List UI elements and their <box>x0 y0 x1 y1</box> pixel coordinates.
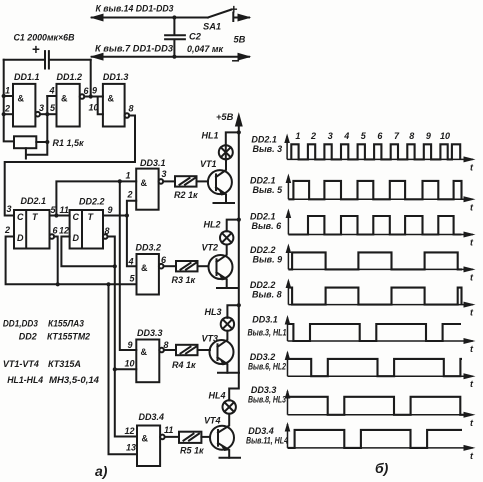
svg-text:1: 1 <box>295 131 300 141</box>
ground VT3 <box>218 372 239 374</box>
wire arrowhead right top <box>238 14 250 21</box>
svg-text:&: & <box>141 347 148 357</box>
svg-text:11: 11 <box>164 425 173 435</box>
svg-text:C: C <box>17 212 24 222</box>
wire R3 to VT2 <box>198 265 209 267</box>
bubble DD3.3 out <box>159 348 164 353</box>
svg-text:4: 4 <box>49 86 55 96</box>
pin 5 wire <box>47 113 56 115</box>
node Q2- junction <box>113 264 117 268</box>
axes w5 <box>288 281 473 305</box>
svg-text:DD2.1: DD2.1 <box>251 135 277 145</box>
svg-text:DD2.2: DD2.2 <box>79 197 105 207</box>
bubble DD3.1 out <box>159 179 164 184</box>
svg-text:Выв. 5: Выв. 5 <box>253 185 284 195</box>
svg-text:DD2: DD2 <box>19 332 38 342</box>
svg-text:DD1.1: DD1.1 <box>14 72 40 82</box>
node Q2 junction <box>125 213 129 217</box>
svg-text:−: − <box>232 53 240 69</box>
svg-text:HL1-HL4: HL1-HL4 <box>7 375 44 385</box>
wire Q1- down to DD3.4 pin13 <box>109 284 138 454</box>
svg-text:DD3.4: DD3.4 <box>139 412 165 422</box>
bubble DD3.4 out <box>160 435 165 440</box>
wire R2 to VT1 <box>197 180 209 182</box>
svg-text:DD2.2: DD2.2 <box>250 280 276 290</box>
wire Q2 pin9 <box>103 215 127 217</box>
gate DD3.3 <box>136 340 159 383</box>
wire +supply top line to pin14 <box>92 17 208 19</box>
svg-text:&: & <box>18 94 25 104</box>
svg-text:SA1: SA1 <box>203 22 221 32</box>
svg-text:К выв.14 DD1-DD3: К выв.14 DD1-DD3 <box>96 4 175 14</box>
svg-text:К155ЛА3: К155ЛА3 <box>48 319 85 329</box>
svg-text:&: & <box>108 94 115 104</box>
wire arrowhead right bottom <box>238 53 250 60</box>
resistor R4 <box>176 345 198 355</box>
resistor R2 <box>175 176 197 186</box>
svg-text:HL1: HL1 <box>202 131 219 141</box>
node pin2 <box>2 112 6 116</box>
wire C1 right down to DD1.2 out <box>90 60 92 97</box>
ground VT2 <box>217 287 238 289</box>
svg-text:DD2.2: DD2.2 <box>250 245 276 255</box>
svg-text:C: C <box>73 212 80 222</box>
svg-text:3: 3 <box>7 204 12 214</box>
wire out6 to R3 <box>164 265 177 267</box>
axes w3 <box>288 211 473 235</box>
svg-text:КТ315А: КТ315А <box>48 359 81 369</box>
pin 4 wire <box>47 95 56 97</box>
svg-text:DD1,DD3: DD1,DD3 <box>3 319 39 329</box>
axes w6 <box>288 318 474 342</box>
bubble DD1.3 out <box>125 113 130 118</box>
wire Q1- down to bus <box>54 237 58 285</box>
svg-text:R5 1к: R5 1к <box>180 446 204 456</box>
wire out8 to R4 <box>164 349 176 351</box>
svg-text:DD1.3: DD1.3 <box>103 72 129 82</box>
svg-text:4: 4 <box>128 257 134 267</box>
svg-text:б): б) <box>375 460 389 476</box>
waveform w2 Q1 <box>288 181 461 199</box>
node C2 bottom <box>172 55 176 59</box>
wire out3 to junction <box>40 113 47 115</box>
wire pin12 loop <box>61 237 114 267</box>
node pin1 <box>2 94 6 98</box>
svg-text:R2 1к: R2 1к <box>174 190 198 200</box>
svg-text:1: 1 <box>126 171 131 181</box>
svg-text:DD3.4: DD3.4 <box>248 426 274 436</box>
svg-text:+: + <box>32 42 40 57</box>
svg-text:HL3: HL3 <box>205 307 222 317</box>
svg-text:13: 13 <box>126 443 136 453</box>
svg-text:&: & <box>141 263 148 273</box>
wire R1 tap <box>26 142 47 159</box>
resistor R3 <box>176 261 198 271</box>
bubble DD2.1 Q- <box>50 234 55 239</box>
svg-text:VT2: VT2 <box>202 243 219 253</box>
node Q1 junction <box>54 213 58 217</box>
waveform w6 HL1 <box>288 324 462 341</box>
svg-text:DD3.3: DD3.3 <box>137 328 163 338</box>
svg-text:Выв.6, HL2: Выв.6, HL2 <box>248 362 286 372</box>
capacitor C2 <box>165 18 185 57</box>
wire Q2- right down <box>108 237 115 267</box>
svg-text:&: & <box>142 434 149 444</box>
wire out8 right and down to clock bus <box>129 116 135 163</box>
wire out3 to R2 <box>163 180 175 182</box>
wire Q1 pin5 to junction <box>50 215 57 217</box>
waveform w8 HL3 <box>288 397 465 415</box>
svg-text:8: 8 <box>409 131 414 141</box>
svg-text:HL2: HL2 <box>204 220 221 230</box>
svg-text:9: 9 <box>108 205 113 215</box>
svg-text:DD3.2: DD3.2 <box>250 352 276 362</box>
svg-text:R3 1к: R3 1к <box>172 275 196 285</box>
wire C1 left down to DD1.1 inputs <box>4 60 14 142</box>
bubble DD1.2 out <box>80 94 85 99</box>
timing labels <box>246 131 474 461</box>
wire R1 right <box>36 141 47 143</box>
node out3 <box>45 112 49 116</box>
svg-text:DD2.1: DD2.1 <box>250 176 276 186</box>
waveform w1 clock <box>291 144 460 159</box>
svg-text:2: 2 <box>310 131 316 141</box>
wire arrowhead left top <box>92 14 103 21</box>
flipflop DD2.1 <box>14 210 50 249</box>
wire R4 to VT3 <box>198 349 210 351</box>
wire Q2 up to DD3.1 pin2 <box>127 201 136 216</box>
node C1/pin9 <box>89 94 93 98</box>
svg-text:DD3.3: DD3.3 <box>251 385 277 395</box>
svg-text:C1 2000мк×6В: C1 2000мк×6В <box>14 33 75 43</box>
wire Q1 up and right to DD3.1 <box>56 181 136 215</box>
wire tie pins 9,10 <box>98 97 103 115</box>
wire Q2- down to DD3.3 pin10 and DD3.4 pin12 <box>115 266 137 436</box>
arrowhead +5V <box>236 114 243 126</box>
svg-text:VT3: VT3 <box>202 334 219 344</box>
node bus pin6 <box>56 282 60 286</box>
svg-text:9: 9 <box>426 131 431 141</box>
svg-text:3: 3 <box>162 169 167 179</box>
svg-text:DD2.1: DD2.1 <box>21 196 47 206</box>
svg-text:VT4: VT4 <box>204 416 221 426</box>
svg-text:8: 8 <box>129 104 134 114</box>
svg-text:D: D <box>17 233 24 243</box>
svg-text:+: + <box>230 2 238 17</box>
gate DD1.3 <box>103 84 125 127</box>
transistor VT1 <box>208 170 232 194</box>
waveform w5 Q2- <box>288 288 461 305</box>
svg-text:VT1-VT4: VT1-VT4 <box>3 359 40 369</box>
node rail HL3 <box>237 303 241 307</box>
svg-text:Выв.11, HL4: Выв.11, HL4 <box>246 436 288 446</box>
svg-text:10: 10 <box>440 131 450 141</box>
svg-text:Выв. 6: Выв. 6 <box>252 221 283 231</box>
axes w8 <box>288 391 474 415</box>
node bus drop <box>106 282 110 286</box>
lamp HL4 <box>228 399 230 402</box>
axes w1 <box>287 136 473 159</box>
svg-text:DD2.1: DD2.1 <box>250 212 276 222</box>
svg-text:&: & <box>61 94 68 104</box>
transistor VT3 <box>210 340 234 364</box>
svg-text:а): а) <box>95 463 108 479</box>
svg-text:4: 4 <box>343 131 349 141</box>
transistor VT2 <box>209 255 233 279</box>
ground VT4 <box>220 457 241 459</box>
transistor VT4 <box>210 426 234 450</box>
svg-text:8: 8 <box>164 340 169 350</box>
wire Q2 down to DD3.2 pin4 <box>127 216 137 267</box>
lamp HL1 <box>226 132 239 145</box>
svg-text:2: 2 <box>4 225 10 235</box>
bubble DD1.1 out <box>35 112 40 117</box>
switch SA1 <box>208 10 249 22</box>
pin 2 wire loop to bus <box>6 237 58 285</box>
wire Q1 down to DD3.3 pin9 <box>120 181 137 350</box>
svg-text:КТ155ТМ2: КТ155ТМ2 <box>47 332 91 342</box>
gate DD3.4 <box>137 426 160 467</box>
wire out11 to R5 <box>165 436 179 438</box>
svg-text:&: & <box>141 178 148 188</box>
lamp HL2 <box>227 220 239 232</box>
svg-text:DD1.2: DD1.2 <box>57 72 83 82</box>
wire arrowhead left bottom <box>92 53 103 60</box>
gate DD3.1 <box>136 169 158 210</box>
node R1 right <box>45 140 49 144</box>
svg-text:DD3.1: DD3.1 <box>140 158 166 168</box>
svg-text:R4 1к: R4 1к <box>172 360 196 370</box>
waveform w7 HL2 <box>288 359 463 376</box>
bubble DD2.2 Q- <box>103 234 108 239</box>
capacitor C1 <box>4 51 91 68</box>
node Q1 drop <box>118 179 122 183</box>
flipflop DD2.2 <box>70 210 103 249</box>
wire R5 to VT4 <box>201 436 210 438</box>
svg-text:HL4: HL4 <box>209 391 226 401</box>
axes w4 <box>288 246 473 269</box>
gate DD1.2 <box>57 84 80 127</box>
svg-text:DD3.1: DD3.1 <box>252 315 278 325</box>
wire out6 to DD1.3 <box>84 96 103 98</box>
svg-text:+5В: +5В <box>216 112 234 122</box>
svg-text:Выв. 8: Выв. 8 <box>252 290 282 300</box>
resistor R5 <box>179 432 201 443</box>
svg-text:5В: 5В <box>234 35 246 45</box>
svg-text:VT1: VT1 <box>200 159 217 169</box>
waveform w3 Q1- <box>288 216 461 235</box>
svg-text:10: 10 <box>89 103 99 113</box>
svg-text:9: 9 <box>128 340 133 350</box>
wire bottom supply line to pin7 <box>92 56 249 58</box>
wire clock bus DD1.3 to DD2.1 C <box>5 162 135 216</box>
svg-text:1: 1 <box>5 86 10 96</box>
axes w2 <box>288 176 473 199</box>
rail +5V <box>229 118 239 400</box>
resistor R1 <box>14 136 36 148</box>
svg-text:Выв.8, HL3: Выв.8, HL3 <box>248 395 286 405</box>
svg-text:D: D <box>73 233 80 243</box>
waveform w4 Q2 <box>288 252 462 269</box>
wire pin10 <box>115 368 137 370</box>
svg-text:Выв. 3: Выв. 3 <box>253 144 283 154</box>
svg-text:К выв.7 DD1-DD3: К выв.7 DD1-DD3 <box>95 44 174 54</box>
node rail HL2 <box>237 218 241 222</box>
wire tie pins 4,5 and down to R1 <box>46 96 48 142</box>
gate DD3.2 <box>137 254 159 295</box>
svg-text:2: 2 <box>127 190 133 200</box>
svg-text:2: 2 <box>4 104 10 114</box>
node rail HL1 <box>237 130 241 134</box>
svg-text:C2: C2 <box>189 32 202 42</box>
ground VT1 <box>214 202 235 204</box>
node C2 top <box>172 15 176 19</box>
svg-text:МН3,5-0,14: МН3,5-0,14 <box>49 375 100 385</box>
svg-text:3: 3 <box>39 103 44 113</box>
svg-text:R1 1,5к: R1 1,5к <box>53 138 85 148</box>
svg-text:8: 8 <box>105 226 110 236</box>
svg-text:Выв. 9: Выв. 9 <box>253 255 283 265</box>
pin 1 wire <box>4 95 13 97</box>
svg-text:10: 10 <box>125 359 135 369</box>
axes w7 <box>288 353 474 377</box>
svg-text:Выв.3, HL1: Выв.3, HL1 <box>248 328 287 338</box>
wire bus to DD3.2 pin5 <box>58 283 137 285</box>
lamp HL3 <box>227 305 238 318</box>
bubble DD3.2 out <box>159 264 164 269</box>
gate DD1.1 <box>13 84 35 127</box>
node Q2- pin10 <box>113 367 117 371</box>
pin 2 wire <box>4 113 13 115</box>
svg-text:3: 3 <box>328 131 333 141</box>
axes w9 <box>288 424 474 448</box>
svg-text:12: 12 <box>125 426 135 436</box>
svg-text:0,047 мк: 0,047 мк <box>187 44 224 54</box>
svg-text:11: 11 <box>60 205 69 215</box>
wire pin11 <box>56 215 69 217</box>
svg-text:DD3.2: DD3.2 <box>136 243 162 253</box>
waveform w9 HL4 <box>288 430 463 448</box>
svg-text:12: 12 <box>59 226 69 236</box>
svg-text:9: 9 <box>92 86 97 96</box>
